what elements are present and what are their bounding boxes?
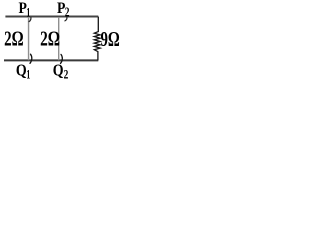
svg-text:1: 1 xyxy=(26,5,30,20)
resistor R3 9ohm zigzag right branch xyxy=(94,17,100,61)
svg-text:2Ω: 2Ω xyxy=(40,26,60,50)
wire bottom horizontal xyxy=(4,59,98,61)
wire vertical branch P1-Q1 xyxy=(28,17,30,60)
junction hook at P2 xyxy=(65,17,67,21)
svg-text:2: 2 xyxy=(64,66,69,81)
svg-text:Q: Q xyxy=(16,60,27,79)
junction hook at P1 xyxy=(29,17,31,21)
junction hook at Q2 xyxy=(61,54,63,63)
svg-text:Q: Q xyxy=(53,60,64,79)
wire vertical branch P2-Q2 xyxy=(58,17,60,60)
wire top horizontal xyxy=(5,16,98,18)
junction hook at Q1 xyxy=(30,54,32,63)
svg-text:9Ω: 9Ω xyxy=(101,27,120,51)
svg-text:2Ω: 2Ω xyxy=(4,26,24,50)
svg-text:1: 1 xyxy=(26,67,30,82)
